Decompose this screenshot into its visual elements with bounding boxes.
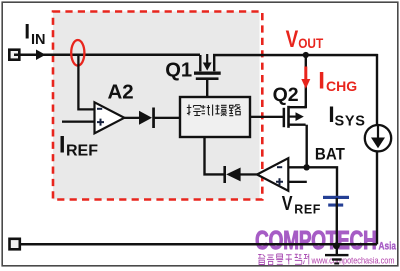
wire: op-amp output to D2	[240, 173, 258, 175]
wire: IREF to A2 non-inverting input	[62, 121, 95, 123]
svg-text:SYS: SYS	[335, 114, 366, 130]
svg-text:OUT: OUT	[298, 35, 323, 51]
wire: input rail	[14, 54, 200, 57]
ground junction dot	[333, 242, 340, 249]
wire: D2 to control block bottom	[205, 137, 224, 174]
wire: Q2 drain up to top rail	[305, 105, 307, 108]
op-amp battery comparator	[257, 158, 288, 191]
wire: top rail corner down to ISYS	[376, 54, 378, 125]
wire: sense tap to A2 inverting input	[78, 55, 94, 109]
arrowhead on input rail	[36, 50, 46, 61]
svg-text:REF: REF	[294, 203, 321, 217]
node VOUT junction dot	[303, 52, 309, 58]
node BAT junction dot	[303, 164, 309, 170]
current sense ellipse	[71, 40, 84, 66]
wire: battery to bottom rail / ground	[336, 198, 338, 254]
battery BT1 plates	[323, 196, 349, 199]
current source ISYS	[365, 125, 391, 151]
svg-text:Q2: Q2	[273, 84, 299, 106]
ground	[325, 254, 349, 256]
svg-text:I: I	[318, 67, 325, 94]
svg-text:REF: REF	[66, 143, 98, 160]
svg-text:V: V	[286, 26, 299, 53]
transistor Q2	[283, 108, 286, 127]
wire: D1 to control block	[153, 117, 180, 119]
svg-text:IN: IN	[31, 32, 46, 48]
wire: A2 output to D1	[124, 117, 140, 119]
transistor Q1	[200, 55, 214, 71]
svg-text:Q1: Q1	[165, 60, 192, 82]
wire: control block to Q2 gate	[250, 116, 283, 118]
input terminal (IIN)	[9, 50, 19, 60]
wire: BAT rail	[288, 167, 337, 196]
wire: ISYS to bottom rail	[376, 151, 378, 244]
IC boundary shaded region	[53, 12, 260, 200]
VREF stub wire	[288, 181, 307, 183]
svg-text:A2: A2	[108, 80, 134, 103]
control loop block (控制環路)	[180, 97, 250, 137]
wire: Q1 gate to control block	[206, 80, 208, 97]
svg-text:Asia: Asia	[379, 240, 397, 252]
svg-text:I: I	[24, 21, 30, 44]
svg-text:I: I	[59, 131, 66, 158]
IC boundary dashed outline	[53, 12, 262, 200]
wire: VOUT node to Q2 drain	[305, 55, 307, 108]
logo COMPOTECH watermark	[255, 225, 397, 255]
wire: Q2 source down to BAT node	[306, 125, 308, 168]
svg-text:www.compotechasia.com: www.compotechasia.com	[311, 256, 395, 266]
op-amp A2	[95, 102, 125, 133]
svg-text:BAT: BAT	[315, 145, 345, 163]
bottom rail wire	[16, 243, 377, 246]
svg-text:COMPOTECH: COMPOTECH	[255, 225, 377, 255]
svg-text:V: V	[282, 192, 293, 215]
svg-text:CHG: CHG	[326, 78, 357, 94]
bottom terminal	[10, 239, 20, 250]
logo tagline 智慧電子設計www.compotechasia.com	[258, 254, 309, 265]
diode D2	[226, 168, 240, 182]
wire: top rail Q1 to ISYS corner	[213, 54, 378, 57]
diode D1	[139, 111, 152, 125]
ICHG current arrow	[304, 67, 307, 81]
